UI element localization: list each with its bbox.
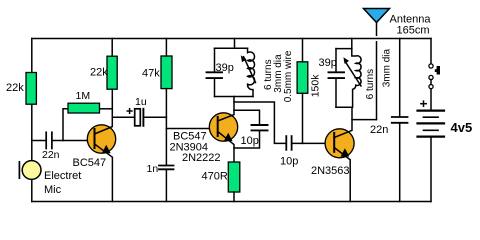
battery B1 plates bbox=[418, 111, 445, 137]
wire between switch contacts bbox=[430, 80, 432, 85]
resistor R5 470R bbox=[228, 162, 240, 192]
resistor R1 22k (left) bbox=[26, 73, 36, 105]
svg-text:10p: 10p bbox=[241, 135, 259, 147]
capacitor C5 10p bottom wire bbox=[234, 131, 260, 148]
svg-text:BC547: BC547 bbox=[73, 157, 107, 169]
wire 47k top to rail bbox=[165, 39, 167, 57]
svg-text:2N3563: 2N3563 bbox=[311, 165, 350, 177]
wire 150k top to rail bbox=[302, 39, 304, 62]
wire base wire of Q1 (left segment to 22n) bbox=[32, 140, 46, 142]
svg-text:Electret: Electret bbox=[44, 170, 81, 182]
capacitor C2 1u negative plate bbox=[142, 109, 144, 126]
capacitor C5 10p (collector-emitter feedback) top wire bbox=[234, 110, 260, 124]
tank 1 left branch upper bbox=[214, 48, 216, 71]
svg-text:165cm: 165cm bbox=[397, 24, 430, 36]
tank 1 bottom wire bbox=[215, 96, 254, 98]
resistor R3 22k (collector of Q1) bbox=[107, 56, 117, 89]
tank 2 left branch upper bbox=[335, 49, 337, 72]
transistor Q3 emitter arrow bbox=[341, 148, 350, 157]
antenna triangle bbox=[364, 9, 390, 23]
tank 2 riser to rail bbox=[351, 39, 353, 49]
wire bottom rail bbox=[32, 201, 431, 203]
transistor Q2 base bar bbox=[217, 117, 219, 136]
svg-text:22k: 22k bbox=[6, 82, 24, 94]
inductor L2 coil bbox=[352, 49, 361, 108]
transistor Q3 base bar bbox=[333, 133, 335, 152]
tank 2 left branch lower bbox=[335, 79, 337, 107]
wire left border upper bbox=[31, 39, 33, 161]
inductor L1 trimmer arrow bbox=[244, 57, 256, 83]
resistor R6 150k bbox=[297, 62, 308, 94]
tank 1 riser to rail bbox=[234, 39, 236, 49]
svg-text:1u: 1u bbox=[135, 96, 147, 108]
wire right border to switch bbox=[430, 39, 432, 64]
inductor L2 trimmer arrow bbox=[345, 61, 361, 86]
wire 470R bottom to rail bbox=[233, 192, 235, 202]
resistor R2 1M bbox=[68, 103, 100, 113]
resistor R4 47k bbox=[161, 56, 172, 89]
wire collector junction to 1u bbox=[112, 116, 134, 118]
transistor Q2 body bbox=[209, 113, 237, 141]
transistor Q2 emitter line bbox=[218, 132, 234, 163]
svg-text:0.5mm wire: 0.5mm wire bbox=[283, 50, 294, 102]
antenna stem upper bbox=[376, 22, 378, 35]
transistor Q3 emitter line bbox=[334, 148, 350, 202]
wire switch to battery bbox=[430, 89, 432, 110]
svg-text:2N2222: 2N2222 bbox=[182, 152, 221, 164]
battery plus sign bbox=[421, 101, 426, 106]
transistor Q2 collector line bbox=[218, 97, 234, 122]
wire 1n bottom to rail bbox=[165, 170, 167, 201]
svg-text:39p: 39p bbox=[216, 62, 234, 74]
capacitor C2 1u electrolytic positive plate bbox=[135, 109, 141, 126]
wire battery to bottom rail bbox=[430, 138, 432, 202]
capacitor C7 39p bbox=[329, 72, 345, 78]
antenna stem lower (crosses rail with gap) bbox=[376, 42, 378, 120]
transistor Q1 emitter line bbox=[95, 144, 113, 202]
wire top rail bbox=[32, 38, 431, 40]
capacitor C6 10p (coupling) left wire bbox=[234, 102, 285, 143]
wire 22n to base of Q1 bbox=[53, 140, 95, 142]
wire base wire of Q2 bbox=[166, 128, 217, 130]
svg-text:22n: 22n bbox=[42, 149, 60, 161]
tank 1 top wire bbox=[215, 47, 248, 49]
svg-text:4v5: 4v5 bbox=[451, 120, 473, 135]
svg-text:1M: 1M bbox=[76, 90, 91, 102]
wire C6 to base of Q3 bbox=[293, 142, 334, 144]
tank 1 left branch lower bbox=[214, 79, 216, 97]
tank 2 top wire bbox=[336, 48, 352, 50]
wire collector Q3 to antenna line bbox=[352, 119, 377, 121]
capacitor C8 22n (supply decoupling) top wire bbox=[399, 39, 401, 117]
svg-text:22k: 22k bbox=[90, 67, 108, 79]
inductor L1 coil bbox=[248, 48, 255, 96]
svg-text:6 turns: 6 turns bbox=[365, 69, 376, 100]
capacitor C8 22n bottom wire bbox=[399, 124, 401, 202]
wire 1M right leg bbox=[100, 108, 113, 110]
wire 22k top to rail bbox=[111, 39, 113, 57]
transistor Q1 emitter arrow bbox=[102, 145, 111, 154]
wire left border lower (mic to bottom rail) bbox=[31, 179, 33, 201]
capacitor C4 39p bbox=[207, 72, 223, 78]
wire 1M left leg bbox=[63, 109, 68, 141]
capacitor C8 22n plates bbox=[392, 117, 408, 123]
svg-text:39p: 39p bbox=[319, 57, 337, 69]
svg-text:Mic: Mic bbox=[44, 184, 62, 196]
transistor Q3 2N3563 body bbox=[325, 129, 354, 158]
svg-text:150k: 150k bbox=[310, 74, 322, 98]
switch S1 actuator bbox=[437, 66, 440, 75]
svg-text:47k: 47k bbox=[142, 68, 160, 80]
transistor Q2 emitter arrow bbox=[224, 133, 233, 142]
switch S1 terminal circles bbox=[429, 64, 433, 89]
transistor Q1 base bar bbox=[94, 129, 96, 148]
svg-text:3mm dia: 3mm dia bbox=[381, 49, 392, 88]
svg-text:10p: 10p bbox=[280, 156, 298, 168]
capacitor C6 10p plates bbox=[286, 136, 291, 150]
electret mic body bbox=[22, 161, 41, 180]
wire 150k bottom to base node bbox=[302, 93, 304, 143]
capacitor C3 1n bbox=[159, 166, 174, 170]
transistor Q3 collector line bbox=[334, 107, 352, 137]
svg-text:470R: 470R bbox=[202, 171, 228, 183]
electret mic electrode bar bbox=[18, 162, 20, 178]
transistor Q1 collector line bbox=[95, 89, 113, 134]
capacitor C1 22n bbox=[46, 132, 52, 148]
svg-text:1n: 1n bbox=[147, 163, 159, 175]
plus sign of 1u bbox=[127, 109, 132, 114]
svg-text:22n: 22n bbox=[370, 124, 388, 136]
capacitor C5 10p plates bbox=[252, 125, 268, 130]
wire 1u to 47k junction bbox=[144, 116, 166, 118]
wire 47k bottom through junctions to 1n bbox=[165, 89, 167, 165]
transistor Q1 BC547 body bbox=[87, 125, 115, 153]
tank 2 bottom wire bbox=[336, 106, 352, 108]
